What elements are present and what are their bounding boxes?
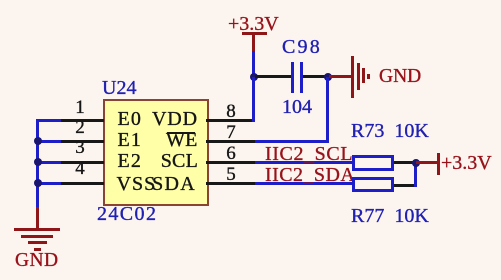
ground GND left bar 2 — [21, 235, 53, 238]
pin 1 stub — [58, 119, 104, 122]
IC U24 refdes label — [102, 78, 136, 98]
ground GND left bar 1 — [14, 228, 60, 231]
power +3.3V right bar — [437, 153, 440, 175]
ground GND right label — [379, 67, 421, 87]
ground GND left bar 4 — [34, 248, 41, 251]
U24 pin name SDA — [152, 174, 196, 194]
pin 8 number — [221, 102, 241, 121]
junction at pin 4 — [34, 179, 42, 187]
pin 7 number — [221, 123, 241, 142]
ground GND right bar 1 — [351, 56, 354, 98]
ground GND left label — [15, 251, 58, 271]
U24 pin name E2 — [118, 151, 143, 171]
pin 1 number — [70, 98, 90, 117]
resistor R73 — [352, 155, 394, 171]
junction node B (cap right / WE) — [324, 73, 332, 81]
U24 pin name SCL — [161, 151, 198, 171]
wire R77 right — [394, 184, 416, 187]
resistor R73 label — [351, 121, 429, 141]
wire junction B to pin 7 horizontal — [255, 140, 329, 143]
pin 2 number — [70, 118, 90, 137]
junction at pin 3 — [34, 158, 42, 166]
U24 pin name WE overline — [167, 132, 195, 134]
capacitor C98 value 104 — [282, 97, 312, 117]
U24 pin name WE — [166, 130, 198, 150]
wire junction A to pin 8 vertical — [252, 77, 255, 122]
wire junction C to +3.3V right — [416, 161, 437, 164]
pin 4 stub — [58, 182, 104, 185]
pin 4 number — [70, 159, 90, 178]
U24 pin name E1 — [118, 130, 143, 150]
wire pin4 to left bus — [36, 182, 61, 185]
ground GND right bar 4 — [367, 74, 370, 79]
resistor R77 — [352, 177, 394, 192]
pin 5 stub — [206, 182, 255, 185]
pin 6 stub — [206, 161, 255, 164]
pin 3 stub — [58, 161, 104, 164]
wire left bus vertical — [36, 119, 39, 208]
junction node A (VDD / cap left) — [250, 73, 258, 81]
wire junction B to GND right — [329, 75, 351, 78]
IC U24 part number 24C02 — [97, 204, 157, 224]
net label IIC2_SDA — [265, 165, 355, 185]
pin 5 number — [221, 165, 241, 184]
ground GND left bar 3 — [28, 241, 47, 244]
capacitor C98 right plate — [300, 62, 303, 93]
wire +3.3V down to junction A — [252, 51, 255, 79]
power +3.3V right label — [441, 153, 492, 173]
power +3.3V top stub — [252, 34, 255, 51]
pin 2 stub — [58, 140, 104, 143]
resistor R77 label — [351, 206, 429, 226]
ground GND right bar 3 — [362, 68, 365, 83]
wire junction A to capacitor — [255, 75, 292, 78]
power +3.3V top label — [228, 14, 279, 34]
wire pin2 to left bus — [36, 140, 61, 143]
pin 7 stub — [206, 140, 255, 143]
capacitor C98 left plate — [291, 62, 294, 93]
U24 pin name VSS — [117, 174, 157, 194]
net label IIC2_SCL — [265, 144, 353, 164]
wire pin3 to left bus — [36, 161, 61, 164]
pin 8 stub — [206, 119, 255, 122]
wire junction B down — [326, 77, 329, 143]
wire pin6 to R73 — [255, 161, 352, 164]
ground GND left: stub — [36, 207, 39, 228]
ground GND right bar 2 — [357, 63, 360, 90]
wire R73 to junction C — [394, 161, 416, 164]
junction node C (R73 / R77 / +3.3V) — [412, 159, 420, 167]
capacitor C98 label — [282, 37, 322, 57]
wire pin1 to left bus — [36, 119, 61, 122]
U24 pin name VDD — [152, 109, 198, 129]
junction at pin 2 — [34, 137, 42, 145]
wire junction C down to R77 — [414, 163, 417, 187]
U24 pin name E0 — [118, 109, 143, 129]
pin 3 number — [70, 138, 90, 157]
IC U24 body — [103, 99, 209, 206]
wire capacitor to junction B — [303, 75, 329, 78]
power +3.3V top bar — [242, 32, 267, 35]
pin 6 number — [221, 144, 241, 163]
wire pin5 to R77 — [255, 182, 352, 185]
